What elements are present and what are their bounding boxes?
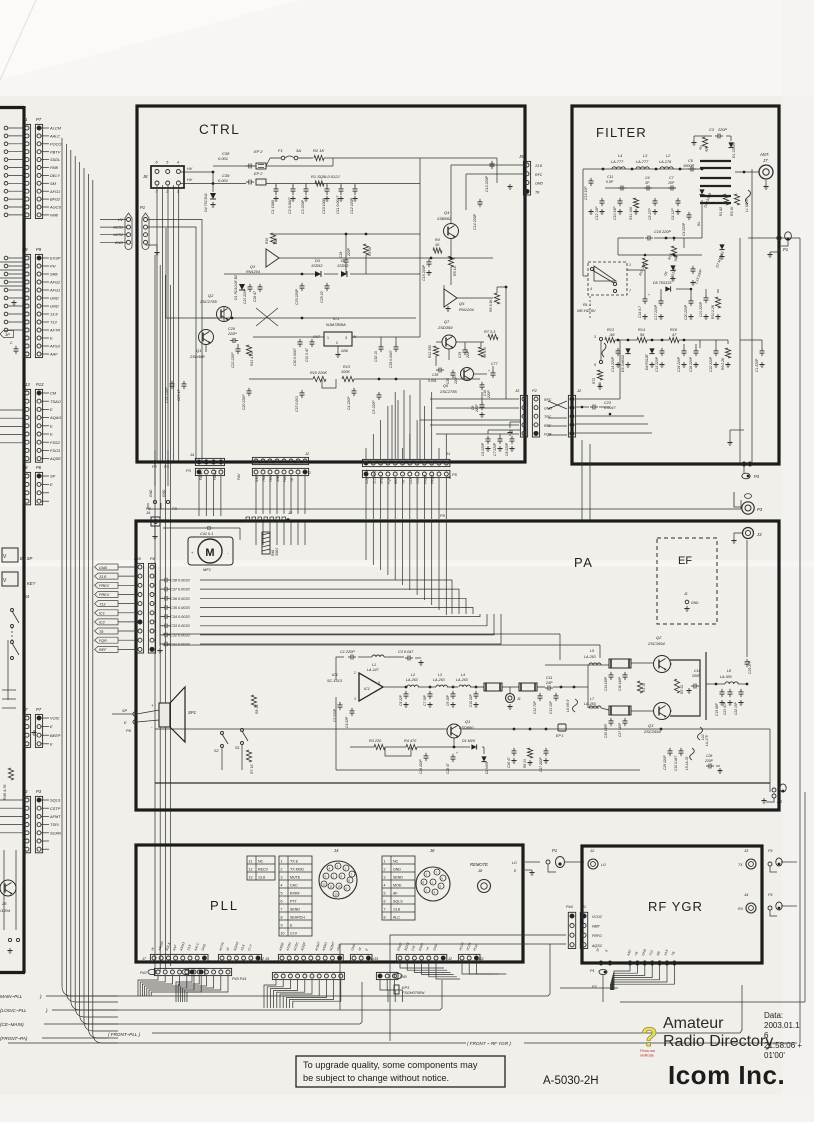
svg-text:P7: P7 xyxy=(36,117,42,122)
svg-text:P1: P1 xyxy=(783,247,788,252)
svg-text:P7: P7 xyxy=(36,707,42,712)
svg-text:C9 18P: C9 18P xyxy=(446,694,450,706)
wires ygr p44 left xyxy=(390,935,566,1041)
svg-text:P1: P1 xyxy=(590,969,595,973)
svg-text:HV: HV xyxy=(187,167,193,171)
connector P1 pa bottom right xyxy=(772,788,776,792)
svg-text:E: E xyxy=(50,482,53,487)
svg-text:PAV: PAV xyxy=(237,473,241,480)
svg-text:Q7: Q7 xyxy=(444,319,450,324)
svg-text:EXSP: EXSP xyxy=(50,256,61,261)
svg-text:P45: P45 xyxy=(134,557,142,561)
svg-text:R7 3.3: R7 3.3 xyxy=(484,330,496,334)
capacitor C8 27P xyxy=(654,198,656,201)
svg-text:GND: GND xyxy=(50,296,59,301)
svg-text:LA-263: LA-263 xyxy=(406,678,418,682)
svg-text:R11 10K: R11 10K xyxy=(629,206,633,220)
wires pa top strips internal xyxy=(365,522,367,560)
svg-text:13.8: 13.8 xyxy=(258,876,265,880)
capacitors C28 C27 ctrl left xyxy=(171,381,173,384)
wires pll j2 to right xyxy=(400,962,444,968)
connector J9 P9 strip xyxy=(23,254,30,357)
svg-text:7: 7 xyxy=(281,908,283,912)
svg-text:R7 1K: R7 1K xyxy=(250,764,254,774)
svg-text:POCO: POCO xyxy=(50,141,61,146)
capacitor cluster left board xyxy=(15,346,17,349)
svg-text:J3: J3 xyxy=(22,789,28,794)
svg-text:GND: GND xyxy=(341,349,349,353)
svg-text:C12 18P: C12 18P xyxy=(595,206,599,220)
svg-text:T8: T8 xyxy=(290,478,294,482)
svg-text:3P: 3P xyxy=(5,332,10,337)
svg-text:IC1: IC1 xyxy=(332,673,338,677)
transformer winding bars xyxy=(700,160,731,162)
svg-text:SEARCH: SEARCH xyxy=(290,916,305,920)
svg-text:FQR: FQR xyxy=(99,639,107,643)
svg-text:?: ? xyxy=(641,1022,658,1052)
svg-text:C5 22P: C5 22P xyxy=(399,694,403,706)
svg-text:R2 10: R2 10 xyxy=(680,685,684,694)
svg-text:R10 2.2K: R10 2.2K xyxy=(711,304,715,319)
svg-text:5: 5 xyxy=(384,892,386,896)
svg-text:5: 5 xyxy=(378,681,380,685)
attenuator pad 1 xyxy=(484,683,502,691)
resistor R11 10K xyxy=(633,198,638,208)
svg-text:VOIC: VOIC xyxy=(50,716,60,721)
svg-text:Q2: Q2 xyxy=(208,293,214,298)
svg-text:D4 7SCD11: D4 7SCD11 xyxy=(204,193,208,212)
svg-text:220P: 220P xyxy=(704,759,714,763)
svg-text:EP 1: EP 1 xyxy=(556,734,564,738)
svg-text:Firma non: Firma non xyxy=(640,1049,655,1053)
svg-text:IC2(PAW): IC2(PAW) xyxy=(365,469,369,484)
svg-text:PA: PA xyxy=(574,555,593,570)
svg-text:2SD359: 2SD359 xyxy=(437,325,453,330)
svg-text:C24: C24 xyxy=(339,252,343,258)
svg-text:C20 220P: C20 220P xyxy=(242,394,246,410)
wires J1 down xyxy=(365,478,367,519)
svg-text:S4: S4 xyxy=(24,594,30,599)
svg-text:C10 0.047: C10 0.047 xyxy=(674,756,678,771)
net arrow labels PA left xyxy=(95,564,119,570)
svg-text:LA-263: LA-263 xyxy=(433,678,445,682)
svg-text:ALCM: ALCM xyxy=(49,126,62,131)
FILTER board border xyxy=(572,106,779,464)
svg-text:C10 33P: C10 33P xyxy=(613,206,617,220)
svg-text:PTT: PTT xyxy=(290,900,298,904)
svg-text:REF: REF xyxy=(99,648,107,652)
connector P1 filter right xyxy=(777,236,781,240)
relay RL1 contacts box xyxy=(588,262,627,295)
svg-text:AF: AF xyxy=(393,892,398,896)
connector J1 pa mid xyxy=(506,694,515,703)
svg-text:IC1: IC1 xyxy=(333,316,339,321)
wires ctrl to filter crossover xyxy=(548,401,567,409)
svg-text:C31 0.47: C31 0.47 xyxy=(305,348,309,362)
svg-text:0.0047: 0.0047 xyxy=(604,406,617,410)
capacitor C23 220P ctrl xyxy=(301,283,303,286)
svg-text:25: 25 xyxy=(1,901,7,906)
collector bus xyxy=(670,660,700,716)
svg-text:Q4: Q4 xyxy=(444,210,450,215)
svg-text:( FRONT~PLL ): ( FRONT~PLL ) xyxy=(108,1032,141,1037)
svg-text:+: + xyxy=(488,369,490,373)
svg-text:(CE~MAIN): (CE~MAIN) xyxy=(0,1022,24,1027)
capacitor C23 27P xyxy=(746,659,748,662)
emitter rail ctrl xyxy=(166,317,416,319)
svg-text:E: E xyxy=(50,336,53,341)
svg-text:2: 2 xyxy=(281,868,283,872)
svg-text:/1204: /1204 xyxy=(0,908,11,913)
cluster C29 C10 L9 pa bottom xyxy=(669,748,671,751)
component EP3 FSGH070RN xyxy=(394,985,399,994)
svg-text:RXRF: RXRF xyxy=(290,892,301,896)
svg-text:C2 0.0047: C2 0.0047 xyxy=(288,196,292,214)
svg-text:Q2: Q2 xyxy=(656,635,662,640)
svg-text:FAN(+): FAN(+) xyxy=(199,469,203,480)
svg-text:AFG1: AFG1 xyxy=(49,288,60,293)
resistor R3 1K ctrl xyxy=(363,244,368,255)
pa long wires xyxy=(545,664,601,666)
capacitor column C38-C31 0.0033 xyxy=(160,579,163,581)
svg-text:2SC2785: 2SC2785 xyxy=(199,299,217,304)
svg-text:R9 3.3K: R9 3.3K xyxy=(489,299,493,312)
svg-text:C33 0.0033: C33 0.0033 xyxy=(170,624,191,628)
capacitors C15 C17 xyxy=(610,718,612,721)
svg-text:220P: 220P xyxy=(466,349,470,359)
svg-text:NC: NC xyxy=(393,860,399,864)
capacitor C7 18P xyxy=(429,691,431,694)
wires PA caps to right xyxy=(200,580,452,614)
svg-text:SP: SP xyxy=(50,474,56,479)
svg-text:J2: J2 xyxy=(287,510,293,515)
svg-text:GND: GND xyxy=(380,476,384,484)
svg-text:R4 470: R4 470 xyxy=(404,739,417,743)
capacitor C37 0.001 xyxy=(301,390,303,393)
svg-text:To upgrade quality, some co: To upgrade quality, some components may xyxy=(303,1060,478,1070)
svg-text:J1: J1 xyxy=(516,697,521,701)
capacitor C4 220P filter xyxy=(688,212,690,215)
svg-text:AFMT: AFMT xyxy=(49,814,61,819)
svg-text:13: 13 xyxy=(249,876,253,880)
svg-text:IC1: IC1 xyxy=(364,687,370,691)
resistor R3 1K xyxy=(734,194,739,205)
svg-text:CM: CM xyxy=(50,391,57,396)
svg-text:FM8: FM8 xyxy=(50,213,59,218)
svg-text:J1: J1 xyxy=(581,905,586,909)
svg-text:NR-HD-6V: NR-HD-6V xyxy=(577,308,596,313)
capacitor C25 22 xyxy=(326,283,328,286)
grounds mid filter xyxy=(644,314,646,317)
svg-text:SP1: SP1 xyxy=(188,710,196,715)
svg-text:Q3: Q3 xyxy=(648,723,654,728)
svg-text:Radio Directory: Radio Directory xyxy=(663,1033,773,1050)
capacitor C17 220P xyxy=(660,298,662,301)
connector J3 P3 strip xyxy=(23,796,30,852)
svg-text:C31 0.0033: C31 0.0033 xyxy=(170,643,191,647)
svg-text:P6: P6 xyxy=(36,465,42,470)
jack EX SP box xyxy=(2,548,18,562)
svg-text:C3 0.047: C3 0.047 xyxy=(398,650,414,654)
svg-text:C9: C9 xyxy=(645,176,650,180)
svg-text:10P: 10P xyxy=(668,181,675,185)
connector J8 P6 strip xyxy=(23,472,30,504)
svg-text:J4: J4 xyxy=(189,452,195,457)
svg-text:J13: J13 xyxy=(22,382,30,387)
connector J8 ctrl xyxy=(151,166,184,188)
svg-text:21:58:06 +: 21:58:06 + xyxy=(764,1041,802,1050)
svg-text:GND: GND xyxy=(691,601,699,605)
svg-text:PBTV: PBTV xyxy=(50,149,61,154)
svg-text:J4: J4 xyxy=(145,510,151,515)
svg-text:RF YGR: RF YGR xyxy=(648,899,703,914)
capacitors C14 C16 135P 140P xyxy=(610,672,612,675)
capacitor C13 220P xyxy=(491,161,493,164)
svg-text:T8: T8 xyxy=(402,480,406,484)
svg-text:12: 12 xyxy=(323,882,327,886)
wire bundle left vertical xyxy=(61,138,63,986)
svg-text:RN1204: RN1204 xyxy=(246,270,260,274)
svg-text:SEND: SEND xyxy=(290,908,300,912)
svg-text:T8: T8 xyxy=(535,190,539,194)
svg-text:VCO2: VCO2 xyxy=(592,915,602,919)
svg-text:TRC: TRC xyxy=(544,415,552,419)
svg-text:R10 220K: R10 220K xyxy=(310,371,327,375)
wire LOGIC-PLL xyxy=(52,1009,440,1011)
note box xyxy=(296,1056,505,1087)
svg-text:LA-247: LA-247 xyxy=(367,668,380,672)
svg-text:4: 4 xyxy=(384,884,386,888)
svg-text:J6: J6 xyxy=(429,848,435,853)
svg-text:2SD468: 2SD468 xyxy=(189,354,205,359)
svg-text:C8 220P: C8 220P xyxy=(505,442,509,456)
resistor R5 1K xyxy=(448,256,453,267)
svg-text:0.001: 0.001 xyxy=(428,379,437,383)
svg-text:RFC: RFC xyxy=(544,398,552,402)
svg-text:J2: J2 xyxy=(576,388,582,393)
svg-text:C10 22P: C10 22P xyxy=(469,693,473,707)
svg-text:REF: REF xyxy=(394,476,398,484)
svg-text:P3: P3 xyxy=(164,464,170,469)
svg-text:C11: C11 xyxy=(607,175,613,179)
connector J1 P7 strip xyxy=(23,124,30,218)
capacitor C18 220P xyxy=(481,382,483,385)
capacitor C12 70P, C13 10P xyxy=(539,693,541,696)
svg-text:J8: J8 xyxy=(142,174,148,179)
svg-text:4: 4 xyxy=(177,161,179,165)
svg-text:C10 1000: C10 1000 xyxy=(322,198,326,214)
svg-text:J7: J7 xyxy=(762,158,768,163)
pll bottom wires xyxy=(138,976,158,996)
svg-text:SRE: SRE xyxy=(50,272,58,277)
svg-text:R16: R16 xyxy=(265,238,269,244)
svg-text:C23 220P: C23 220P xyxy=(295,288,299,305)
svg-text:220P: 220P xyxy=(347,247,351,257)
svg-text:C35: C35 xyxy=(432,373,438,377)
svg-text:PH: PH xyxy=(50,264,56,269)
resistor R8 1K xyxy=(251,695,256,707)
svg-text:C13 10P: C13 10P xyxy=(549,700,553,714)
svg-text:J1: J1 xyxy=(22,117,27,122)
svg-text:FSO3: FSO3 xyxy=(50,448,61,453)
resistor R46 33ohm xyxy=(262,532,270,554)
svg-text:C14 220P: C14 220P xyxy=(473,213,477,230)
svg-text:0.5P: 0.5P xyxy=(606,180,614,184)
svg-text:680: 680 xyxy=(274,238,278,244)
svg-text:AFS3: AFS3 xyxy=(49,344,61,349)
resistor R2 82 xyxy=(702,137,707,148)
svg-text:Icom Inc.: Icom Inc. xyxy=(668,1060,785,1090)
svg-text:MUTE: MUTE xyxy=(290,876,301,880)
svg-text:R5 1K: R5 1K xyxy=(453,265,457,276)
svg-text:1K: 1K xyxy=(435,243,440,247)
svg-text:R4: R4 xyxy=(435,238,440,242)
svg-text:T13: T13 xyxy=(416,478,420,484)
svg-text:C16 140P: C16 140P xyxy=(618,676,622,691)
svg-text:SP: SP xyxy=(122,709,128,713)
svg-text:C17 220P: C17 220P xyxy=(654,304,658,320)
svg-text:11: 11 xyxy=(330,884,333,888)
svg-text:Q5: Q5 xyxy=(459,301,465,306)
svg-text:GND: GND xyxy=(50,304,59,309)
svg-text:R8 1K: R8 1K xyxy=(255,704,259,714)
connector J7 P7 strip xyxy=(23,714,30,747)
svg-text:3: 3 xyxy=(384,876,386,880)
wires J2 down xyxy=(255,476,257,514)
svg-text:Q3: Q3 xyxy=(250,265,256,269)
svg-text:FQB: FQB xyxy=(544,432,552,436)
svg-text:R3 1K: R3 1K xyxy=(730,206,734,216)
svg-text:8: 8 xyxy=(384,916,386,920)
svg-text:P5: P5 xyxy=(446,475,452,480)
CTRL board border xyxy=(137,106,525,462)
svg-text:TX E: TX E xyxy=(290,860,299,864)
svg-text:P5: P5 xyxy=(440,513,446,518)
svg-text:L4: L4 xyxy=(618,154,622,158)
capacitors C6 C7 C8 xyxy=(487,436,489,439)
svg-text:C11: C11 xyxy=(546,676,552,680)
svg-text:IC2: IC2 xyxy=(99,621,105,625)
svg-text:C12 220P: C12 220P xyxy=(350,197,354,214)
svg-text:L8: L8 xyxy=(727,669,731,673)
svg-text:J7: J7 xyxy=(141,957,147,961)
svg-text:P13: P13 xyxy=(36,382,44,387)
svg-text:HV: HV xyxy=(118,218,124,222)
svg-text:SQLS: SQLS xyxy=(393,900,403,904)
svg-text:R11 4.7K: R11 4.7K xyxy=(250,351,254,366)
svg-text:J8: J8 xyxy=(22,465,28,470)
svg-text:S1: S1 xyxy=(235,746,240,750)
svg-text:C1 220P: C1 220P xyxy=(755,358,759,372)
svg-text:C3 220P: C3 220P xyxy=(301,199,305,214)
capacitor C24 220P xyxy=(345,257,347,260)
svg-text:J2: J2 xyxy=(447,957,453,961)
capacitor C9 220P xyxy=(481,402,483,405)
svg-text:13.8: 13.8 xyxy=(99,575,107,579)
svg-text:FSGH070RN: FSGH070RN xyxy=(402,991,425,995)
svg-text:R1 SQ5L0.012J: R1 SQ5L0.012J xyxy=(311,174,340,179)
capacitor C15 220P xyxy=(428,259,430,262)
horizontals from J3 left xyxy=(430,398,519,400)
PLL table 2 xyxy=(382,856,415,920)
svg-text:2003.01.1: 2003.01.1 xyxy=(764,1021,800,1030)
capacitor C6 12P xyxy=(677,198,679,201)
svg-text:C13 220P: C13 220P xyxy=(485,175,489,192)
svg-text:SEND: SEND xyxy=(393,876,403,880)
svg-text:P44: P44 xyxy=(566,905,573,909)
svg-text:E: E xyxy=(50,724,53,729)
svg-text:JC1(MV): JC1(MV) xyxy=(372,471,376,485)
svg-text:C26 47: C26 47 xyxy=(253,291,257,302)
diode D4 7SCD11 xyxy=(212,172,214,192)
svg-text:C2 220P: C2 220P xyxy=(333,708,337,722)
capacitor C10 33P xyxy=(619,198,621,201)
svg-text:C15 220P: C15 220P xyxy=(422,264,426,281)
svg-text:C16 4.7: C16 4.7 xyxy=(638,306,642,318)
svg-text:PLL: PLL xyxy=(210,898,239,913)
PLL table left xyxy=(247,856,275,880)
capacitor C19 220P filter xyxy=(692,266,694,269)
svg-text:+: + xyxy=(648,293,650,297)
svg-text:LA-300: LA-300 xyxy=(720,675,732,679)
wire HV rail xyxy=(181,171,214,173)
RF YGR board border xyxy=(582,846,762,963)
svg-text:R9 2.2K: R9 2.2K xyxy=(721,357,725,370)
wire MAIN-PLL xyxy=(46,995,548,997)
svg-text:CI-/J3: CI-/J3 xyxy=(368,957,379,961)
svg-text:P5: P5 xyxy=(452,472,458,477)
svg-text:13.8: 13.8 xyxy=(409,477,413,484)
svg-text:C25 22: C25 22 xyxy=(320,291,324,303)
svg-text:GND: GND xyxy=(393,868,401,872)
capacitor C26 47 pa xyxy=(452,754,454,757)
svg-text:2: 2 xyxy=(353,671,356,675)
transistor Q25 fragment xyxy=(0,880,16,896)
resonator block lower xyxy=(609,706,631,715)
svg-text:MAIN~PLL: MAIN~PLL xyxy=(0,994,23,999)
svg-text:SSDL: SSDL xyxy=(50,157,60,162)
svg-text:1: 1 xyxy=(384,860,386,864)
svg-text:WBT: WBT xyxy=(592,925,601,929)
svg-text:S8B: S8B xyxy=(276,475,280,482)
svg-text:C21 220P: C21 220P xyxy=(699,301,703,317)
svg-text:P3: P3 xyxy=(754,474,760,479)
svg-text:C4 220P: C4 220P xyxy=(682,222,686,236)
svg-text:C29 220P: C29 220P xyxy=(663,755,667,770)
svg-text:P1: P1 xyxy=(768,848,773,853)
svg-text:ACS1: ACS1 xyxy=(112,226,123,230)
svg-text:P42: P42 xyxy=(140,971,148,975)
capacitor C14 220P xyxy=(479,199,481,202)
resistor R7 1K xyxy=(246,750,251,762)
long wire y509 to P3 xyxy=(148,508,741,510)
capacitor C14 220P filter xyxy=(617,348,619,351)
svg-text:2SB562: 2SB562 xyxy=(436,216,452,221)
wires J5 left xyxy=(451,164,523,166)
svg-text:10: 10 xyxy=(338,884,342,888)
lowpass chain wire xyxy=(583,168,702,170)
svg-text:verificata: verificata xyxy=(640,1054,654,1058)
vertical comb J1 up into ctrl xyxy=(365,448,367,459)
svg-text:P43 P41: P43 P41 xyxy=(232,977,247,981)
resistor R1 82 xyxy=(723,194,728,205)
svg-text:C24 220P: C24 220P xyxy=(419,759,423,774)
svg-text:6: 6 xyxy=(764,1031,769,1040)
svg-text:6: 6 xyxy=(281,900,283,904)
svg-text:P3: P3 xyxy=(36,789,42,794)
speaker SP1 xyxy=(159,703,170,727)
svg-text:C22 220P: C22 220P xyxy=(709,356,713,372)
